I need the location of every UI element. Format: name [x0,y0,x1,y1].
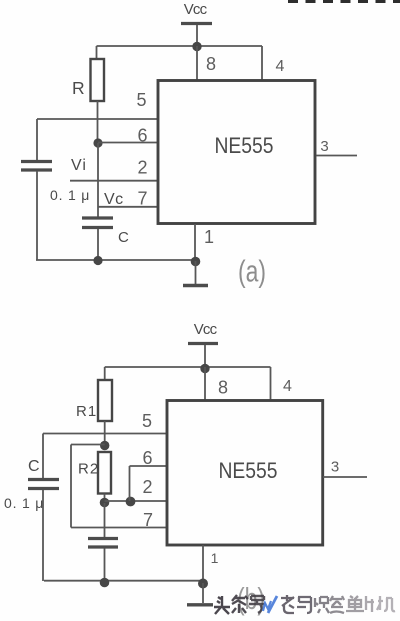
wire resistor R bottom [97,101,99,143]
wire resistor R top stub [96,46,98,59]
watermark hanzi hao [249,596,266,613]
svg-text:4: 4 [276,58,285,75]
resistor R2 [98,452,111,494]
watermark hanzi lao [281,595,294,613]
svg-text:3: 3 [331,459,339,476]
capacitor C (a) [82,218,113,228]
svg-text:6: 6 [142,448,152,468]
watermark hanzi dan [346,596,364,611]
watermark hanzi tu [330,596,344,613]
wire pin 2 (b) [105,500,168,502]
junction pin 6 node (a) [93,138,102,147]
wire Vcc stub (a) [196,25,198,46]
wire pin 5 (b) [43,433,167,435]
wire timing cap bottom stub (b) [104,549,106,582]
wire top supply rail (b) [105,366,271,368]
wire middle branch (a) [97,143,99,217]
watermark blue logo w [263,601,271,611]
watermark hanzi shi [315,597,329,613]
svg-text:Vc: Vc [104,191,124,208]
junction capacitor ground node (a) [93,256,102,265]
wire control cap branch upper (b) [42,434,44,480]
wire pin 6 (a) [98,142,158,144]
capacitor timing C1 (b) [88,539,118,548]
wire pin 7 (b) [71,527,167,529]
wire pin 4 stub (a) [261,46,263,80]
svg-text:7: 7 [143,510,153,530]
ground symbol (b) [187,603,213,606]
dashed page border top right [288,0,400,3]
op-amp timer NE555 U1 (a) [158,81,315,224]
watermark hanzi ma [297,597,311,613]
svg-text:Vi: Vi [71,157,87,174]
svg-text:8: 8 [206,54,216,74]
svg-text:(a): (a) [238,254,266,289]
svg-text:R: R [72,78,85,98]
wire ground stub (b) [202,583,204,603]
junction pin 1 ground node (a) [191,257,201,267]
watermark hanzi tiao [232,595,248,613]
wire pin 7 (a) [98,206,158,208]
watermark hanzi tou [214,596,230,614]
wire capacitor C bottom (a) [97,229,99,260]
svg-text:7: 7 [137,189,147,209]
wire Vcc stub (b) [204,345,206,367]
wire pin 8 stub (a) [196,46,198,80]
watermark blue slash [268,596,277,613]
wire pin 5 (a) [37,118,158,120]
capacitor 0.1u (a) [21,162,52,171]
wire resistor R2 bottom stub [104,494,106,504]
wire left branch lower (a) [36,171,38,260]
wire left branch upper (a) [36,119,38,161]
svg-text:Vcc: Vcc [184,1,208,18]
junction R1 R2 node (b) [100,441,109,450]
wire top supply rail (a) [97,45,263,47]
svg-text:NE555: NE555 [219,458,278,483]
wire pin 1 stub (a) [194,224,196,260]
svg-text:1: 1 [204,227,214,247]
svg-text:C: C [118,229,129,246]
Vcc power bar (b) [188,342,218,345]
wire pin 4 stub (b) [270,367,272,401]
svg-text:R2: R2 [78,461,99,478]
wire discharge bracket left (b) [70,445,72,528]
wire pin 3 output (a) [316,155,357,157]
resistor R1 [98,380,112,421]
svg-text:3: 3 [320,138,328,155]
wire pin 1 stub (b) [202,545,204,583]
Vcc power bar (a) [181,22,212,25]
svg-text:4: 4 [283,378,292,395]
wire ground rail (a) [36,259,196,261]
junction timing cap ground node (b) [100,578,110,588]
wire pin 3 output (b) [323,476,367,478]
wire discharge bracket top (b) [71,444,105,446]
wire control cap branch lower (b) [42,490,44,581]
svg-text:1: 1 [211,550,219,566]
junction Vcc node (a) [192,42,201,51]
svg-text:R1: R1 [76,403,97,420]
junction R2 bottom node (b) [100,498,110,508]
ground symbol (a) [183,284,208,287]
svg-text:0. 1 μ: 0. 1 μ [4,495,44,511]
svg-text:NE555: NE555 [215,133,274,158]
svg-text:2: 2 [137,158,147,178]
svg-text:5: 5 [136,90,146,110]
svg-text:6: 6 [137,126,147,146]
capacitor C 0.1u (b) [28,480,59,489]
op-amp timer NE555 U2 (b) [167,401,323,546]
wire pin 6 (b) [130,465,168,467]
wire resistor R1 top stub [104,367,106,380]
wire ground rail (b) [44,580,204,582]
svg-text:C: C [28,458,40,475]
wire pin 6 to pin 2 link (b) [129,466,131,501]
svg-text:0. 1 μ: 0. 1 μ [50,187,90,203]
wire resistor R1 bottom [104,421,106,446]
wire pin 8 stub (b) [204,367,206,401]
junction Vcc node (b) [200,364,209,373]
svg-text:Vcc: Vcc [194,321,218,338]
wire pin 2 input Vi (a) [70,180,158,182]
resistor R [91,59,105,101]
wire timing cap top stub (b) [104,503,106,538]
svg-text:2: 2 [142,477,152,497]
svg-text:8: 8 [218,378,228,398]
junction pin 1 ground node (b) [198,579,208,589]
watermark hanzi ji [377,596,395,611]
svg-text:5: 5 [142,411,152,431]
wire ground stub (a) [195,261,197,284]
watermark hanzi pian [366,596,374,612]
junction pin 2 node (b) [126,497,136,507]
